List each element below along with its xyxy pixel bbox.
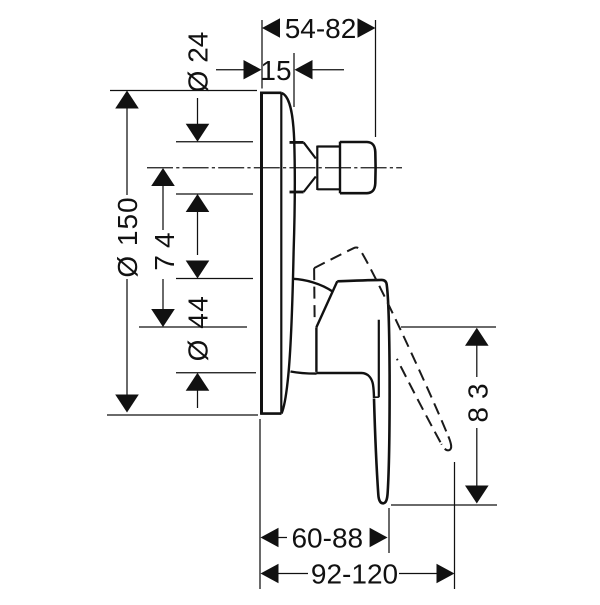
handle sleeve bottom arc — [291, 372, 317, 374]
svg-text:Ø 44: Ø 44 — [183, 295, 214, 362]
knob cone bottom — [304, 177, 316, 193]
handle blade step tick — [374, 396, 379, 398]
dimension dia 24 — [183, 32, 214, 279]
svg-text:Ø 150: Ø 150 — [112, 196, 143, 277]
knob stem top — [290, 141, 304, 144]
escutcheon plate bottom edge — [260, 412, 281, 415]
svg-text:74: 74 — [149, 225, 180, 270]
handle body top and lever outline — [337, 280, 389, 503]
dimension 74 — [149, 168, 180, 327]
svg-text:83: 83 — [462, 375, 493, 422]
extension line lever tip — [388, 508, 390, 553]
dimension 15 — [216, 55, 344, 86]
escutcheon plate inner face line — [280, 93, 282, 414]
extension line plate front bulge — [293, 53, 295, 107]
dimension 92-120 — [261, 559, 455, 590]
extension line handle axis left — [139, 326, 247, 328]
handle sleeve top arc — [293, 279, 333, 292]
knob collar bottom — [317, 188, 340, 190]
svg-text:92-120: 92-120 — [311, 559, 398, 590]
svg-text:54-82: 54-82 — [285, 13, 357, 44]
extension line knob face — [375, 20, 377, 137]
extension line dia24 top — [176, 141, 253, 143]
dimension 83 — [462, 328, 493, 504]
knob head outline — [340, 142, 376, 193]
escutcheon plate top edge — [260, 92, 281, 95]
svg-text:15: 15 — [260, 55, 291, 86]
extension line left top (plate wall face) — [261, 20, 263, 89]
dashed handle raised position — [295, 245, 456, 478]
handle body left diagonal — [316, 281, 337, 327]
svg-text:Ø 24: Ø 24 — [183, 32, 214, 93]
dimension 60-88 — [261, 523, 388, 554]
center line knob axis — [147, 167, 402, 169]
extension line dia44 bottom — [176, 372, 256, 374]
dimension 54-82 — [262, 13, 376, 44]
knob head back — [339, 142, 341, 194]
knob collar back — [316, 146, 318, 190]
handle body bottom edge — [316, 373, 374, 398]
knob stem bottom — [290, 191, 304, 194]
extension line dashed lever tip — [454, 462, 456, 589]
extension line bottom left reference — [259, 419, 261, 589]
escutcheon plate back edge — [260, 92, 263, 415]
handle body left vertical — [315, 327, 317, 372]
svg-text:60-88: 60-88 — [291, 523, 363, 554]
extension line dia150 bottom — [107, 414, 258, 416]
extension line 83 top (handle axis right) — [401, 326, 496, 328]
escutcheon plate front bulge — [282, 93, 295, 414]
knob cone top — [304, 142, 316, 158]
extension line dia150 top — [110, 90, 257, 92]
extension line dia24 bottom — [176, 193, 253, 195]
knob collar top — [317, 145, 340, 147]
dimension dia 44 — [183, 295, 214, 408]
extension line dia44 top — [176, 278, 253, 280]
extension line 83 bottom (lever tip level) — [391, 504, 497, 506]
handle blade inner upper edge — [378, 320, 380, 398]
dimension dia 150 — [112, 91, 143, 413]
